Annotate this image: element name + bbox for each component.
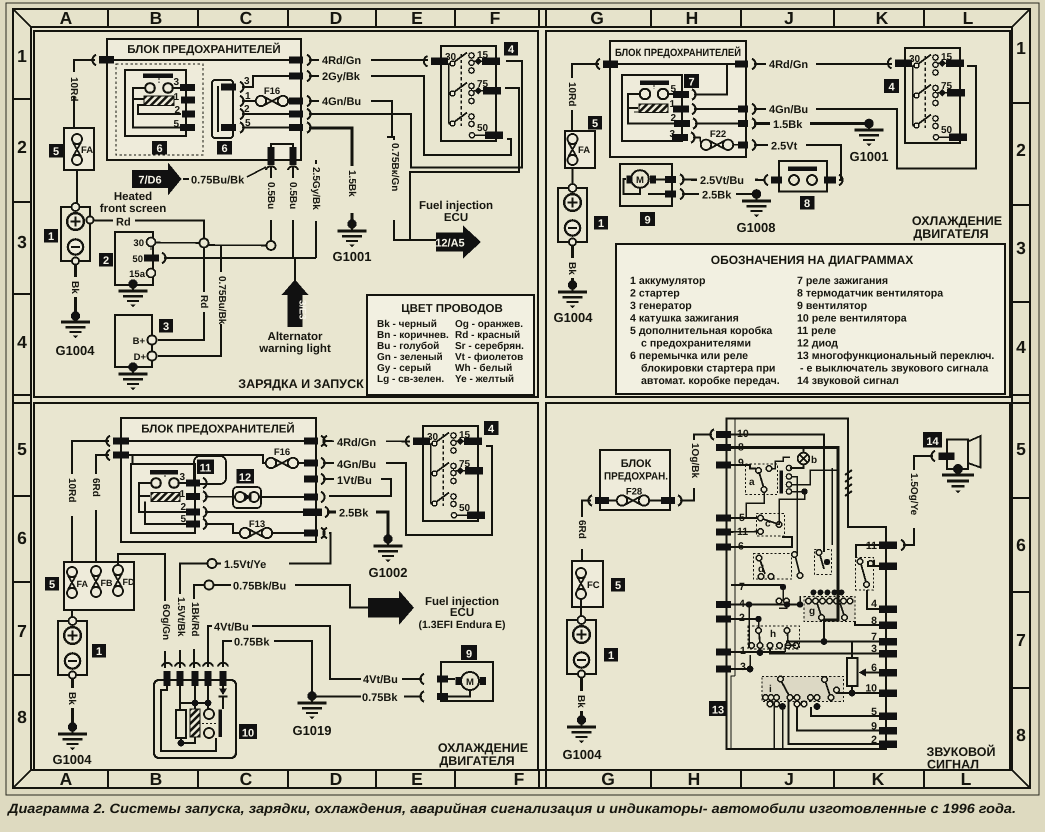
fuse block bbox=[610, 41, 746, 157]
fuse block bbox=[121, 418, 316, 542]
svg-text:D: D bbox=[330, 8, 343, 28]
svg-text:1.5Vt/Bk: 1.5Vt/Bk bbox=[175, 597, 186, 637]
svg-text:1Vt/Bu: 1Vt/Bu bbox=[337, 475, 372, 487]
fuse block bottom stubs (0.5Bu feeds) bbox=[266, 144, 298, 170]
fuse F16 bbox=[242, 86, 291, 106]
switch left pin numbers bbox=[737, 428, 749, 673]
relay 7 bbox=[622, 75, 697, 143]
svg-text:B: B bbox=[150, 8, 163, 28]
svg-text:3 генератор: 3 генератор bbox=[630, 300, 692, 312]
ground G1004 (right) bbox=[553, 283, 593, 325]
svg-text:D+: D+ bbox=[134, 352, 147, 363]
fan motor 9 bbox=[420, 662, 493, 702]
svg-text:E: E bbox=[411, 8, 423, 28]
wire jumper pin5 bbox=[242, 127, 291, 129]
heated screen arrow 7/D6 bbox=[100, 163, 266, 216]
svg-text:K: K bbox=[872, 769, 885, 789]
svg-text:G1004: G1004 bbox=[562, 747, 602, 762]
svg-text:13: 13 bbox=[712, 705, 724, 717]
svg-text:E: E bbox=[411, 769, 423, 789]
svg-text:4 катушка зажигания: 4 катушка зажигания bbox=[630, 313, 739, 325]
svg-text:4Gn/Bu: 4Gn/Bu bbox=[322, 96, 361, 108]
rounded outline around label 11 bbox=[194, 456, 226, 484]
svg-text:1: 1 bbox=[871, 558, 877, 570]
junction dots below i bbox=[767, 701, 820, 710]
label 5 (aux fuse box) bbox=[49, 144, 63, 158]
wire 1.5Bk to ground G1001 bbox=[309, 128, 359, 229]
svg-text:G1001: G1001 bbox=[849, 149, 888, 164]
svg-text:3: 3 bbox=[740, 661, 746, 673]
svg-text:ПРЕДОХРАН.: ПРЕДОХРАН. bbox=[604, 471, 668, 483]
svg-text:9 вентилятор: 9 вентилятор bbox=[797, 300, 868, 312]
svg-text:G1008: G1008 bbox=[736, 220, 775, 235]
wire 6Rd bbox=[89, 455, 109, 565]
svg-text:1: 1 bbox=[48, 231, 54, 243]
svg-text:1Bk/Rd: 1Bk/Rd bbox=[189, 602, 200, 636]
svg-text:0.75Bk/Bu: 0.75Bk/Bu bbox=[233, 581, 286, 593]
grid letters bottom bbox=[60, 769, 972, 789]
svg-text:A: A bbox=[60, 8, 73, 28]
svg-text:G1002: G1002 bbox=[368, 565, 407, 580]
svg-text:Heated: Heated bbox=[114, 191, 152, 203]
svg-text:6Rd: 6Rd bbox=[576, 520, 587, 539]
svg-text:B: B bbox=[150, 769, 163, 789]
svg-text:1Og/Bk: 1Og/Bk bbox=[689, 443, 700, 478]
wire relay pin5 to bus bbox=[694, 64, 727, 95]
grid ticks left bbox=[13, 99, 31, 675]
svg-text:3: 3 bbox=[1016, 238, 1026, 258]
wire right pad 2 row bbox=[789, 700, 880, 744]
svg-text:11 реле: 11 реле bbox=[797, 325, 836, 337]
label 7 (relay) bbox=[684, 74, 699, 89]
svg-text:5: 5 bbox=[49, 579, 55, 591]
wire FC to battery bbox=[580, 598, 582, 620]
wire FA to battery bbox=[76, 170, 78, 207]
svg-text:10Rd: 10Rd bbox=[68, 77, 79, 101]
svg-text:БЛОК ПРЕДОХРАНИТЕЛЕЙ: БЛОК ПРЕДОХРАНИТЕЛЕЙ bbox=[127, 42, 280, 56]
svg-text:3: 3 bbox=[244, 76, 250, 87]
svg-text:12/A5: 12/A5 bbox=[435, 238, 464, 250]
label 2 (starter) bbox=[99, 253, 113, 267]
svg-text:7: 7 bbox=[688, 77, 694, 89]
svg-text:3: 3 bbox=[179, 472, 185, 483]
svg-text:30: 30 bbox=[133, 238, 144, 249]
svg-text:Sr - серебрян.: Sr - серебрян. bbox=[455, 341, 524, 352]
label 12 bbox=[237, 469, 255, 484]
svg-text:2.5Gy/Bk: 2.5Gy/Bk bbox=[310, 167, 321, 210]
svg-text:FA: FA bbox=[578, 145, 590, 156]
svg-text:4: 4 bbox=[888, 82, 895, 94]
svg-text:10Rd: 10Rd bbox=[66, 478, 77, 502]
alternator warning light arrow 3/E3 bbox=[258, 258, 331, 355]
svg-text:0.5Bu: 0.5Bu bbox=[287, 182, 298, 209]
wire relay pin1 to 4Gn/Bu pad bbox=[694, 108, 738, 110]
svg-text:H: H bbox=[686, 8, 699, 28]
ground G1001 (right) bbox=[849, 121, 888, 164]
wire 10Rd left column bbox=[564, 64, 599, 131]
wire 10Rd down the left bbox=[66, 60, 95, 128]
svg-text:Vt - фиолетов: Vt - фиолетов bbox=[455, 352, 523, 363]
svg-text:7 реле зажигания: 7 реле зажигания bbox=[797, 275, 888, 287]
label 10 bbox=[239, 724, 257, 740]
svg-text:Wh - белый: Wh - белый bbox=[455, 363, 512, 374]
svg-text:G1019: G1019 bbox=[292, 723, 331, 738]
wire horn 1.5Og/Ye bbox=[903, 451, 935, 545]
wire relay pin5 to F13 bbox=[205, 519, 305, 538]
0.75Bk/Bu connector + wire to ECU bbox=[194, 578, 369, 608]
svg-text:БЛОК ПРЕДОХРАНИТЕЛЕЙ: БЛОК ПРЕДОХРАНИТЕЛЕЙ bbox=[141, 422, 294, 436]
svg-text:СИГНАЛ: СИГНАЛ bbox=[927, 758, 979, 772]
svg-text:Bk: Bk bbox=[66, 692, 77, 705]
ignition switch 4 bbox=[424, 46, 503, 141]
svg-text:Lg - св-зелен.: Lg - св-зелен. bbox=[377, 374, 444, 385]
contact box c bbox=[757, 514, 785, 537]
label 8 (thermo switch) bbox=[800, 196, 815, 210]
wire Rd down to alternator B+ bbox=[158, 248, 211, 341]
label 13 bbox=[709, 701, 728, 717]
svg-text:L: L bbox=[963, 8, 974, 28]
ground G1008 bbox=[736, 192, 775, 235]
svg-text:warning light: warning light bbox=[258, 343, 331, 355]
svg-text:БЛОК: БЛОК bbox=[621, 458, 652, 470]
svg-text:Alternator: Alternator bbox=[268, 331, 323, 343]
extra contact right of d bbox=[776, 552, 803, 608]
mid verticals bbox=[797, 468, 838, 555]
svg-text:G1004: G1004 bbox=[52, 752, 92, 767]
wire 4Gn/Bu to switch 15 loop bbox=[754, 66, 976, 169]
svg-text:i: i bbox=[769, 684, 772, 695]
wire right pad 9 row bbox=[797, 707, 879, 731]
thick link g to trunk bbox=[824, 596, 838, 642]
contact box i (shaded) bbox=[762, 676, 844, 701]
svg-text:5: 5 bbox=[53, 146, 59, 158]
svg-text:J: J bbox=[784, 769, 794, 789]
wire Bk to ground bbox=[65, 679, 79, 732]
wire 4Rd/Gn bus inside fuse block bbox=[107, 59, 301, 61]
svg-text:K: K bbox=[876, 8, 889, 28]
svg-text:G: G bbox=[601, 769, 615, 789]
svg-text:D: D bbox=[330, 769, 343, 789]
svg-text:6: 6 bbox=[1016, 535, 1026, 555]
svg-text:B+: B+ bbox=[133, 336, 146, 347]
svg-text:5: 5 bbox=[173, 119, 179, 130]
svg-text:1: 1 bbox=[96, 646, 102, 658]
wire 0.75Bu/Bk branch to alternator D+ bbox=[158, 246, 228, 357]
svg-text:F16: F16 bbox=[264, 86, 280, 97]
left pads bbox=[106, 436, 129, 460]
contact box d bbox=[754, 554, 792, 580]
svg-text:Bk - черный: Bk - черный bbox=[377, 319, 437, 330]
svg-text:G1004: G1004 bbox=[553, 310, 593, 325]
svg-text:Ye - желтый: Ye - желтый bbox=[455, 374, 514, 385]
svg-text:8: 8 bbox=[1016, 725, 1026, 745]
svg-text:1: 1 bbox=[173, 92, 179, 103]
svg-text:0.75Bu/Bk: 0.75Bu/Bk bbox=[216, 276, 227, 325]
svg-text:0.75Bк/Gn: 0.75Bк/Gn bbox=[389, 143, 400, 191]
fuse block (БЛОК ПРЕДОХРАН.) bbox=[600, 450, 670, 510]
svg-text:Rd: Rd bbox=[116, 217, 131, 229]
label 9 (fan motor) bbox=[640, 212, 655, 227]
ground G1002 bbox=[368, 537, 407, 580]
svg-text:- е выключатель звукового сигн: - е выключатель звукового сигнала bbox=[800, 363, 988, 375]
svg-text:2: 2 bbox=[17, 137, 27, 157]
svg-text:1: 1 bbox=[608, 650, 614, 662]
svg-text:5: 5 bbox=[17, 439, 27, 459]
wire 0.5Bu left stub down to B bbox=[264, 166, 278, 241]
junction connector circle A bbox=[200, 239, 209, 248]
svg-text:блокировки стартера при: блокировки стартера при bbox=[641, 363, 775, 375]
fuse F16 bbox=[266, 447, 305, 468]
svg-text:ОХЛАЖДЕНИЕ: ОХЛАЖДЕНИЕ bbox=[438, 741, 528, 755]
svg-text:4Rd/Gn: 4Rd/Gn bbox=[769, 59, 808, 71]
svg-text:FA: FA bbox=[77, 579, 89, 589]
section title bbox=[912, 214, 1002, 241]
wire pin4 row with junction dots bbox=[731, 596, 803, 648]
wire pad4 to switch 15 loop bbox=[309, 61, 522, 168]
contact box e bbox=[815, 550, 832, 575]
wire 1Vt/Bu U-link bbox=[323, 472, 391, 496]
ground G1004 (bottom-right) bbox=[562, 718, 602, 762]
svg-text:C: C bbox=[240, 8, 253, 28]
svg-text:Диаграмма 2. Системы запуска,: Диаграмма 2. Системы запуска, зарядки, о… bbox=[7, 801, 1016, 816]
label 1 (battery) bbox=[604, 648, 618, 662]
svg-text:2.5Vt: 2.5Vt bbox=[771, 141, 798, 153]
svg-text:ОХЛАЖДЕНИЕ: ОХЛАЖДЕНИЕ bbox=[912, 214, 1002, 228]
wire relay pin2 to 1.5Bk pad bbox=[695, 123, 738, 125]
wire right pad 8 row bbox=[855, 621, 879, 625]
svg-text:1.5Vt/Ye: 1.5Vt/Ye bbox=[224, 559, 266, 571]
svg-text:10Rd: 10Rd bbox=[566, 82, 577, 106]
wire jumper pin3 to 2Gy/Bk pad bbox=[242, 76, 290, 87]
wire A to connector B bbox=[209, 244, 267, 247]
grid numbers right bbox=[1016, 38, 1026, 745]
svg-text:4: 4 bbox=[1016, 337, 1026, 357]
svg-text:БЛОК ПРЕДОХРАНИТЕЛЕЙ: БЛОК ПРЕДОХРАНИТЕЛЕЙ bbox=[615, 46, 741, 59]
multifunction switch 13 outer box bbox=[727, 419, 887, 750]
wire 1Bk/Rd down bbox=[187, 598, 201, 668]
svg-text:FA: FA bbox=[81, 145, 93, 156]
battery 1 bbox=[558, 184, 587, 246]
svg-text:F22: F22 bbox=[710, 129, 726, 140]
fuse block right pads bbox=[735, 59, 756, 150]
svg-text:8 термодатчик вентилятора: 8 термодатчик вентилятора bbox=[797, 288, 943, 300]
svg-text:8: 8 bbox=[17, 707, 27, 727]
svg-text:12: 12 bbox=[239, 472, 251, 484]
svg-text:0.75Bk: 0.75Bk bbox=[234, 637, 270, 649]
wire pin2 row bbox=[731, 616, 762, 628]
svg-text:Rd - красный: Rd - красный bbox=[455, 330, 520, 341]
svg-text:Bk: Bk bbox=[566, 262, 577, 275]
dotted relay enclosure bbox=[116, 64, 203, 155]
battery 1 bbox=[567, 616, 596, 678]
svg-text:6Og/Gn: 6Og/Gn bbox=[160, 604, 171, 640]
fuse block (БЛОК ПРЕДОХРАНИТЕЛЕЙ) bbox=[107, 39, 301, 160]
wire 2.5Gy/Bk from block bottom to starter 50 bbox=[164, 160, 323, 258]
thick trunk from pin 8 bbox=[731, 448, 852, 597]
wire relay pin1 to diode to pad bbox=[205, 496, 305, 499]
wire right pad 7 row bbox=[786, 638, 879, 645]
svg-text:5: 5 bbox=[592, 118, 598, 130]
label 4 (ignition switch) bbox=[504, 42, 518, 56]
fuse block right pads bbox=[289, 55, 311, 133]
svg-text:4: 4 bbox=[488, 424, 495, 436]
label 1 (battery) bbox=[44, 229, 58, 243]
svg-text:H: H bbox=[688, 769, 701, 789]
svg-text:C: C bbox=[240, 769, 253, 789]
ground G1004 bbox=[55, 313, 95, 358]
wire starter 30 to junction A bbox=[156, 242, 200, 245]
svg-text:ЗАРЯДКА И ЗАПУСК: ЗАРЯДКА И ЗАПУСК bbox=[238, 377, 364, 391]
svg-text:Gy - серый: Gy - серый bbox=[377, 363, 431, 374]
wire 4Gn/Bu + 0.75Bk/Gn to ECU bbox=[309, 93, 410, 240]
wire 4Vt/Bu relay to motor bbox=[208, 620, 422, 680]
aux fuse box FA FB FD bbox=[64, 562, 135, 610]
wire 1.5Vt/Bk down bbox=[173, 564, 208, 669]
wire FA to battery bbox=[572, 168, 574, 188]
svg-text:2.5Bk: 2.5Bk bbox=[339, 508, 369, 520]
svg-text:Fuel injection: Fuel injection bbox=[419, 200, 493, 212]
grid numbers left bbox=[17, 46, 27, 727]
svg-text:6: 6 bbox=[221, 143, 227, 155]
bus2 to F16 bbox=[129, 455, 265, 463]
svg-text:автомат. коробке передач.: автомат. коробке передач. bbox=[641, 375, 780, 387]
svg-text:3: 3 bbox=[163, 321, 169, 333]
grid ticks right bbox=[1012, 103, 1030, 688]
svg-text:3: 3 bbox=[173, 77, 179, 88]
svg-text:1: 1 bbox=[179, 489, 185, 500]
label 4 (ignition switch) bbox=[884, 79, 899, 94]
svg-text:4Vt/Bu: 4Vt/Bu bbox=[214, 622, 249, 634]
svg-text:12 диод: 12 диод bbox=[797, 338, 838, 350]
switch right pads bbox=[879, 540, 905, 748]
svg-text:Bk: Bk bbox=[69, 281, 80, 294]
svg-text:FD: FD bbox=[123, 577, 135, 587]
svg-text:1.5Bk: 1.5Bk bbox=[346, 170, 357, 197]
svg-text:Bn - коричнев.: Bn - коричнев. bbox=[377, 330, 449, 341]
alternator 3 bbox=[115, 315, 157, 372]
contact box f bbox=[856, 558, 874, 591]
label 11 bbox=[197, 460, 214, 475]
wire F13 out to 1.5Vt/Ye connector bbox=[207, 533, 330, 571]
svg-text:L: L bbox=[961, 769, 972, 789]
svg-text:11: 11 bbox=[200, 463, 212, 475]
wire right pad 3 row bbox=[770, 648, 879, 654]
designations legend box bbox=[616, 244, 1005, 394]
svg-text:G: G bbox=[590, 8, 604, 28]
label 4 bbox=[484, 421, 499, 436]
svg-text:Rd: Rd bbox=[198, 295, 209, 308]
svg-text:6 перемычка или реле: 6 перемычка или реле bbox=[630, 350, 748, 362]
svg-text:2: 2 bbox=[1016, 140, 1026, 160]
diode 12 bbox=[233, 487, 261, 508]
quadrant box bottom-left bbox=[34, 403, 538, 770]
ground G1019 bbox=[292, 694, 331, 738]
svg-text:10 реле вентилятора: 10 реле вентилятора bbox=[797, 313, 907, 325]
fuse FA bbox=[64, 128, 94, 170]
svg-text:9: 9 bbox=[738, 457, 744, 469]
wire 2.5Bk motor to ground bbox=[682, 187, 761, 202]
wire 2.5Vt/Bu motor to switch bbox=[682, 173, 765, 188]
svg-text:1: 1 bbox=[1016, 38, 1026, 58]
wire Rd battery to starter 30 bbox=[94, 217, 205, 239]
grid letters top bbox=[60, 8, 974, 28]
relay 6 (starter inhibit relay) bbox=[125, 70, 195, 136]
wire 4Rd/Gn to switch bbox=[323, 434, 410, 449]
section title bbox=[438, 741, 528, 768]
svg-text:b: b bbox=[811, 455, 817, 466]
svg-text:1.5Bk: 1.5Bk bbox=[773, 119, 803, 131]
quadrant box top-right bbox=[546, 31, 1010, 397]
ground under starter bbox=[119, 282, 148, 307]
fuse block left pad + arc bbox=[92, 55, 114, 65]
svg-text:F: F bbox=[514, 769, 525, 789]
svg-text:7: 7 bbox=[739, 581, 745, 593]
svg-text:2.5Bk: 2.5Bk bbox=[702, 190, 732, 202]
svg-text:G1004: G1004 bbox=[55, 343, 95, 358]
svg-text:h: h bbox=[770, 629, 776, 640]
wire pin9 to contact a bbox=[731, 465, 756, 469]
svg-text:9: 9 bbox=[644, 215, 650, 227]
wire 1.5Bk to ground G1001 bbox=[754, 116, 874, 131]
wire 6Rd from F28 down to FC bbox=[575, 501, 591, 562]
svg-text:4: 4 bbox=[17, 332, 27, 352]
label 9 bbox=[461, 645, 477, 661]
fuse F22 bbox=[693, 129, 738, 150]
contact box a bbox=[746, 464, 778, 495]
quadrant box bottom-right bbox=[546, 403, 1010, 770]
svg-text:1.5Og/Ye: 1.5Og/Ye bbox=[908, 473, 919, 516]
wire FD up and over (6Og/Gn) bbox=[118, 554, 172, 668]
wire Bk to ground bbox=[68, 265, 82, 321]
lamp b bbox=[790, 448, 817, 469]
svg-text:2 стартер: 2 стартер bbox=[630, 288, 680, 300]
wire right pad 5 row bbox=[811, 707, 879, 716]
ignition switch 4 bbox=[406, 426, 485, 521]
svg-text:0.75Bk: 0.75Bk bbox=[362, 692, 398, 704]
fuse F28 bbox=[588, 487, 681, 506]
label 14 (horn) bbox=[923, 432, 942, 448]
svg-text:1: 1 bbox=[598, 218, 604, 230]
starter 2 bbox=[115, 232, 166, 289]
svg-text:4: 4 bbox=[508, 44, 515, 56]
svg-text:M: M bbox=[466, 677, 474, 688]
svg-text:4Rd/Gn: 4Rd/Gn bbox=[322, 55, 361, 67]
wire pin10 feed bbox=[731, 435, 824, 553]
svg-text:F28: F28 bbox=[626, 487, 642, 498]
svg-text:Og - оранжев.: Og - оранжев. bbox=[455, 319, 523, 330]
wire right pad 4 row bbox=[867, 590, 879, 609]
wire right pad 10 row bbox=[836, 686, 879, 696]
svg-text:G1001: G1001 bbox=[332, 249, 371, 264]
wire colours legend box bbox=[367, 295, 534, 395]
wire jumper pin2 bbox=[242, 113, 291, 115]
svg-text:F16: F16 bbox=[274, 447, 290, 458]
svg-text:6: 6 bbox=[156, 143, 162, 155]
svg-text:13 многофункциональный переклю: 13 многофункциональный переключ. bbox=[797, 350, 994, 362]
svg-text:5 дополнительная коробка: 5 дополнительная коробка bbox=[630, 325, 772, 337]
label 5 (aux fuse box) bbox=[588, 116, 602, 130]
svg-text:M: M bbox=[636, 175, 644, 186]
svg-text:6: 6 bbox=[17, 528, 27, 548]
svg-text:4Gn/Bu: 4Gn/Bu bbox=[769, 104, 808, 116]
battery 1 bbox=[61, 203, 94, 265]
contact box g (shaded) bbox=[804, 590, 855, 622]
label 6 (jumper) bbox=[217, 141, 232, 155]
svg-text:FC: FC bbox=[587, 580, 600, 591]
ground under horn bbox=[942, 465, 974, 493]
svg-text:10: 10 bbox=[242, 728, 254, 740]
svg-text:4Rd/Gn: 4Rd/Gn bbox=[337, 437, 376, 449]
